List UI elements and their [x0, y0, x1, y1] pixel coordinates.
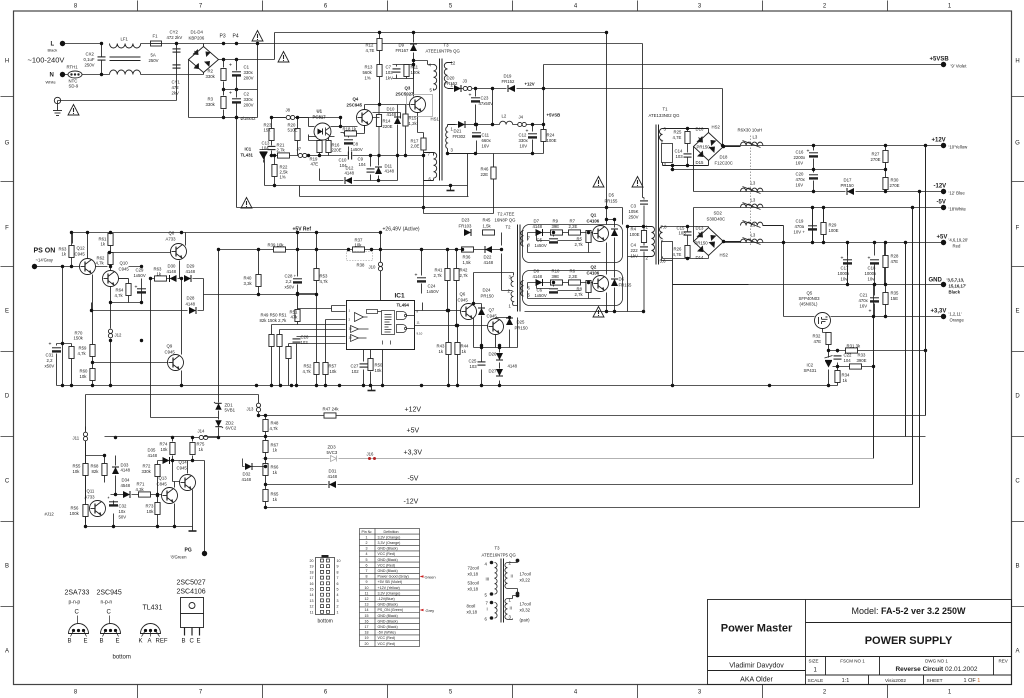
svg-text:2SA733: 2SA733: [65, 590, 90, 597]
svg-text:2,7k: 2,7k: [277, 148, 286, 153]
svg-text:2SC5027: 2SC5027: [396, 92, 415, 97]
svg-text:R13: R13: [365, 65, 373, 70]
svg-text:FR155: FR155: [619, 283, 633, 288]
svg-text:10V +: 10V +: [794, 230, 806, 235]
svg-text:104: 104: [359, 162, 367, 167]
svg-text:R42: R42: [460, 268, 468, 273]
svg-text:HS2: HS2: [720, 253, 729, 258]
svg-text:150k: 150k: [74, 336, 84, 341]
svg-text:GND (Black): GND (Black): [378, 603, 398, 607]
svg-text:VCC (Red): VCC (Red): [378, 636, 396, 640]
svg-text:15: 15: [365, 614, 369, 618]
svg-text:4,7k: 4,7k: [78, 351, 87, 356]
svg-text:103: 103: [676, 154, 684, 159]
svg-text:5,6: 5,6: [660, 259, 667, 264]
svg-text:S30D40C: S30D40C: [707, 217, 726, 222]
svg-text:Q9: Q9: [167, 344, 173, 349]
svg-text:5VB1: 5VB1: [225, 408, 236, 413]
svg-text:20: 20: [310, 559, 314, 563]
svg-text:2kV: 2kV: [172, 91, 180, 96]
svg-text:1x50V: 1x50V: [134, 273, 146, 278]
warning triangle near ground: [68, 105, 79, 116]
svg-text:2SC945: 2SC945: [97, 590, 122, 597]
transistor Q6 C945: [458, 292, 477, 320]
svg-text:D25: D25: [517, 320, 525, 325]
svg-text:10v: 10v: [868, 277, 876, 282]
diode D11 4148: [375, 164, 395, 175]
T3 detail primary 72coil: [468, 561, 498, 578]
L3 core dotted: [750, 136, 752, 247]
svg-text:100k: 100k: [411, 70, 421, 75]
junction dots PG: [103, 454, 106, 457]
inductor L3 +3.3V winding: [741, 221, 784, 228]
svg-text:'10'Yellow: '10'Yellow: [949, 145, 969, 150]
winding T2 sec upper: [521, 231, 531, 248]
svg-text:100E: 100E: [547, 138, 557, 143]
svg-text:R5: R5: [577, 237, 583, 242]
wire CY ground: [58, 44, 177, 107]
svg-text:Green: Green: [425, 574, 436, 579]
svg-text:2,2: 2,2: [286, 279, 293, 284]
wire T1 return line: [671, 164, 886, 192]
shunt regulator IC2 SP431: [804, 356, 833, 374]
svg-text:GND (Black): GND (Black): [378, 558, 398, 562]
ground PG: [189, 527, 197, 532]
svg-text:C23: C23: [481, 96, 489, 101]
svg-text:4,7E: 4,7E: [673, 135, 682, 140]
svg-text:6: 6: [366, 563, 368, 567]
resistor R71 4,3k: [136, 482, 151, 498]
terminal +5V: [937, 235, 969, 249]
diode D31 4148: [328, 469, 338, 489]
svg-text:R2: R2: [208, 69, 214, 74]
svg-text:12: 12: [310, 605, 314, 609]
svg-text:9: 9: [366, 580, 368, 584]
svg-text:J4: J4: [519, 115, 524, 120]
svg-text:R25: R25: [674, 130, 682, 135]
svg-text:x0,18: x0,18: [468, 572, 479, 577]
svg-text:D31: D31: [329, 469, 337, 474]
wire +5VRef rail: [73, 232, 382, 234]
svg-text:J10: J10: [369, 265, 377, 270]
svg-text:+: +: [49, 342, 52, 348]
node P3: [220, 34, 226, 46]
svg-text:4,7k: 4,7k: [96, 261, 105, 266]
svg-text:12: 12: [451, 61, 456, 66]
capacitor C26 103: [293, 335, 309, 346]
resistor R63 1k input: [59, 233, 75, 267]
svg-text:J11: J11: [73, 436, 80, 441]
svg-text:10k: 10k: [161, 447, 169, 452]
zener ZD2 6VC2: [215, 420, 237, 430]
svg-text:Q11: Q11: [87, 489, 95, 494]
svg-text:C945: C945: [177, 466, 188, 471]
svg-text:4148: 4148: [533, 274, 543, 279]
svg-text:III: III: [486, 577, 490, 582]
diode D17 PR150: [841, 178, 855, 196]
resistor R26 4,7E: [663, 246, 709, 259]
svg-text:1x50V: 1x50V: [535, 243, 547, 248]
svg-text:R75: R75: [197, 442, 205, 447]
svg-text:PR150: PR150: [841, 183, 855, 188]
wire R39/R37 line: [219, 250, 502, 403]
svg-text:R6X30 10uH: R6X30 10uH: [738, 128, 763, 133]
svg-text:C945: C945: [165, 350, 176, 355]
svg-text:ATEE16N7Pb QG: ATEE16N7Pb QG: [426, 49, 461, 54]
svg-text:(pair): (pair): [520, 618, 531, 623]
wire bridge minus: [189, 60, 258, 118]
svg-text:F: F: [1016, 226, 1020, 232]
svg-text:F12C20C: F12C20C: [715, 161, 733, 166]
diode D23 FR103: [459, 218, 473, 237]
svg-text:3,3V (Orange): 3,3V (Orange): [378, 535, 401, 539]
resistor R73 10k: [146, 503, 161, 515]
wire ZD chain: [151, 403, 219, 437]
svg-text:472: 472: [172, 85, 180, 90]
resistor R53 4,7k: [314, 269, 329, 285]
svg-text:+12V (Yellow): +12V (Yellow): [378, 586, 400, 590]
capacitor C28 2,2 x50V: [285, 274, 303, 290]
T3 detail secondary 17coil lower: [505, 594, 519, 620]
svg-text:4,3k: 4,3k: [136, 487, 145, 492]
svg-text:G: G: [5, 141, 10, 147]
svg-text:C: C: [107, 610, 112, 616]
svg-text:REV: REV: [999, 659, 1008, 664]
svg-text:SD2: SD2: [714, 211, 723, 216]
svg-text:82k: 82k: [92, 469, 100, 474]
svg-text:GND (Black): GND (Black): [378, 619, 398, 623]
svg-text:R10: R10: [552, 269, 560, 274]
capacitor C32 10x 50V: [108, 497, 127, 520]
svg-text:D9: D9: [399, 43, 405, 48]
svg-text:R29: R29: [829, 223, 837, 228]
svg-text:Q5: Q5: [807, 291, 813, 296]
wire Q9: [93, 279, 182, 418]
svg-text:C20: C20: [796, 172, 804, 177]
wire Q3 collector to T3: [414, 61, 434, 97]
svg-text:C5: C5: [537, 238, 543, 243]
svg-text:'18'White: '18'White: [949, 207, 967, 212]
svg-text:C17: C17: [841, 266, 849, 271]
svg-text:C11: C11: [482, 133, 490, 138]
resistor R59 4,7k: [78, 345, 96, 357]
svg-text:18: 18: [310, 570, 314, 574]
svg-text:D18: D18: [720, 155, 728, 160]
svg-text:6: 6: [337, 582, 339, 586]
svg-text:L3: L3: [751, 181, 756, 186]
resistor R46 22E: [481, 167, 497, 180]
svg-text:D: D: [5, 394, 10, 400]
svg-text:TL431: TL431: [241, 153, 254, 158]
diode D29 4148: [184, 264, 196, 283]
resistor R29 100E: [821, 208, 839, 243]
svg-text:FR103: FR103: [459, 224, 473, 229]
capacitor CX2: [84, 44, 106, 75]
svg-text:R52: R52: [304, 364, 312, 369]
svg-text:#J12: #J12: [45, 512, 55, 517]
terminal +3.3V: [931, 309, 965, 323]
svg-text:C16: C16: [796, 150, 804, 155]
wire +310V from bridge: [219, 33, 607, 60]
svg-text:470a: 470a: [795, 224, 805, 229]
svg-text:+5VSB: +5VSB: [547, 113, 561, 118]
svg-text:CY1: CY1: [172, 80, 181, 85]
label PG output: [171, 548, 208, 560]
svg-text:17coil: 17coil: [520, 572, 531, 577]
resistor R43 1k: [437, 343, 452, 355]
resistor R48 4,7k: [263, 420, 279, 432]
inductor L3 +12V: [738, 128, 763, 148]
svg-text:R8: R8: [577, 287, 583, 292]
svg-text:D10: D10: [387, 107, 395, 112]
pinout 2SC5027 2SC4106: [177, 580, 206, 645]
svg-text:R7: R7: [570, 219, 576, 224]
svg-text:+: +: [526, 129, 529, 135]
svg-text:+3,3V: +3,3V: [404, 450, 423, 457]
svg-text:10k: 10k: [73, 469, 81, 474]
wire C17 C18 C21 R35: [848, 243, 886, 317]
svg-text:1kV: 1kV: [386, 76, 394, 81]
resistor R55 10k: [73, 464, 89, 476]
svg-text:R50: R50: [375, 363, 383, 368]
svg-text:C10: C10: [339, 158, 347, 163]
svg-text:Visio2002: Visio2002: [885, 678, 906, 684]
svg-text:'12' Blue: '12' Blue: [949, 191, 966, 196]
svg-text:x0,18: x0,18: [468, 587, 479, 592]
svg-text:B: B: [1015, 564, 1019, 570]
svg-text:+5V: +5V: [407, 428, 420, 435]
svg-text:C1: C1: [244, 65, 250, 70]
svg-text:A: A: [1015, 649, 1019, 655]
svg-text:K: K: [139, 639, 143, 645]
svg-text:4548: 4548: [121, 483, 131, 488]
resistor R41 2,7k: [434, 268, 451, 281]
capacitor C31 2,2 x50V: [45, 342, 62, 369]
svg-text:F: F: [5, 226, 9, 232]
snubber C15 103: [663, 226, 709, 246]
svg-text:250V: 250V: [629, 215, 639, 220]
resistor R18 1k: [343, 127, 357, 137]
svg-text:15E: 15E: [891, 296, 899, 301]
svg-text:2,0E: 2,0E: [411, 144, 420, 149]
svg-text:4148: 4148: [167, 269, 177, 274]
svg-text:50V: 50V: [119, 515, 127, 520]
svg-text:C9: C9: [358, 157, 364, 162]
svg-text:2,7k: 2,7k: [575, 242, 584, 247]
svg-text:R27: R27: [872, 152, 880, 157]
wire +5VSB vertical: [544, 65, 944, 154]
transistor Q1 C4106: [587, 213, 609, 242]
transformer T3 aux winding: [424, 152, 437, 182]
svg-text:4148: 4148: [148, 453, 158, 458]
node J7: [297, 147, 307, 158]
svg-text:103: 103: [386, 70, 394, 75]
svg-text:-12V: -12V: [404, 499, 419, 506]
svg-text:11: 11: [417, 321, 420, 325]
svg-text:2,7k: 2,7k: [575, 292, 584, 297]
wire AC line to C3: [643, 44, 645, 198]
svg-text:FR152: FR152: [445, 81, 459, 86]
svg-text:FSCM NO 1: FSCM NO 1: [840, 659, 865, 664]
diode D5 FR155: [605, 193, 619, 237]
svg-text:'8'Green: '8'Green: [171, 555, 188, 560]
svg-text:x0,32: x0,32: [520, 608, 531, 613]
resistor R40 3,3k: [244, 275, 262, 287]
svg-text:2200x: 2200x: [794, 155, 807, 160]
transistor Q13 C945: [157, 476, 178, 504]
svg-text:R15: R15: [409, 116, 417, 121]
svg-text:510E: 510E: [288, 128, 298, 133]
svg-text:C24: C24: [428, 284, 436, 289]
svg-text:2: 2: [337, 605, 339, 609]
bridge rectifier D1-D4 KBP206: [189, 44, 219, 75]
svg-text:N: N: [50, 73, 54, 79]
svg-text:1,5k: 1,5k: [483, 224, 492, 229]
svg-text:Q6: Q6: [460, 292, 466, 297]
resistor R20 510E: [288, 123, 301, 141]
svg-text:16V: 16V: [796, 183, 804, 188]
svg-text:+3,3V: +3,3V: [931, 309, 947, 315]
svg-text:R64: R64: [116, 288, 124, 293]
svg-text:103: 103: [470, 364, 478, 369]
svg-text:4148: 4148: [508, 364, 518, 369]
transformer T3 secondary winding lower: [446, 125, 476, 154]
wire AC line top: [63, 43, 643, 45]
svg-text:ZD3: ZD3: [328, 445, 337, 450]
junction dots standby: [378, 31, 381, 34]
svg-text:GND: GND: [929, 278, 943, 284]
svg-text:R28: R28: [891, 254, 899, 259]
svg-text:4148: 4148: [533, 224, 543, 229]
svg-text:R26: R26: [674, 247, 682, 252]
frame column ticks bottom: [138, 685, 888, 698]
svg-text:D1-D4: D1-D4: [191, 30, 204, 35]
svg-text:100E: 100E: [630, 232, 640, 237]
svg-text:Q7: Q7: [489, 308, 495, 313]
svg-text:4,7E: 4,7E: [673, 252, 682, 257]
svg-text:D7: D7: [534, 219, 540, 224]
svg-text:Q4: Q4: [353, 97, 359, 102]
terminal +12V: [932, 138, 969, 150]
capacitor C16 2200x 16V: [794, 149, 819, 166]
capacitor C14 103: [675, 149, 692, 166]
capacitor C3 105K 250V: [629, 201, 649, 220]
svg-text:16N8P QG: 16N8P QG: [495, 218, 517, 223]
svg-text:+12V: +12V: [525, 82, 535, 87]
svg-text:'1,2,11': '1,2,11': [949, 312, 962, 317]
svg-text:C32: C32: [119, 504, 127, 509]
wire PS-ON upper rail continuation: [72, 233, 74, 244]
svg-text:F1: F1: [153, 34, 159, 39]
svg-text:E: E: [84, 639, 88, 645]
svg-text:D22: D22: [484, 255, 492, 260]
svg-text:VCC (Red): VCC (Red): [378, 552, 396, 556]
svg-text:D29: D29: [187, 264, 195, 269]
svg-text:E: E: [5, 309, 9, 315]
svg-text:C: C: [75, 610, 80, 616]
capacitor C4 222 1kV: [631, 243, 649, 259]
svg-text:16V: 16V: [482, 144, 490, 149]
terminal GND: [929, 278, 967, 295]
capacitor C29 1x50V: [134, 268, 147, 294]
svg-text:R60: R60: [80, 369, 88, 374]
svg-text:+26,49V (Active): +26,49V (Active): [383, 227, 420, 233]
svg-text:R56: R56: [71, 506, 79, 511]
resistor R25 4,7E: [673, 129, 691, 153]
svg-text:KBP206: KBP206: [189, 36, 205, 41]
svg-text:HS2: HS2: [712, 125, 721, 130]
resistor R31 3k: [846, 344, 861, 354]
capacitor C11 660x 16V: [472, 133, 492, 149]
svg-text:1: 1: [366, 535, 368, 539]
svg-text:bottom: bottom: [113, 655, 131, 661]
svg-text:H: H: [1015, 59, 1019, 65]
capacitor C23 47x50V: [469, 93, 494, 107]
svg-text:FR302: FR302: [453, 134, 467, 139]
warning triangle top2: [278, 52, 289, 63]
resistor R23 15k: [264, 123, 275, 141]
svg-text:2,2E: 2,2E: [569, 274, 578, 279]
diode D9 FR167: [396, 43, 418, 54]
svg-text:20: 20: [365, 642, 369, 646]
svg-text:D24: D24: [483, 288, 491, 293]
svg-text:E: E: [197, 639, 201, 645]
svg-text:R44: R44: [461, 344, 469, 349]
svg-text:'4,6,19,20': '4,6,19,20': [949, 238, 969, 243]
svg-text:J13: J13: [247, 407, 255, 412]
svg-text:~14'Gray: ~14'Gray: [36, 258, 54, 263]
svg-text:C945: C945: [75, 252, 86, 257]
svg-text:Definition: Definition: [384, 530, 399, 534]
diode D12 4148: [345, 166, 355, 185]
transformer T1 core: [656, 125, 659, 265]
resistor R61 1k: [99, 234, 114, 247]
zener ZD1 5VB1: [214, 402, 236, 413]
wire C1 rails: [224, 60, 237, 118]
frame row ticks left: [1, 97, 14, 607]
svg-text:FR167: FR167: [396, 48, 410, 53]
svg-text:10: 10: [337, 559, 341, 563]
svg-text:'9' Violet: '9' Violet: [951, 64, 968, 69]
svg-text:+: +: [415, 273, 418, 279]
node J3: [463, 79, 472, 91]
diode D32 4148: [242, 459, 268, 483]
svg-text:4,7k: 4,7k: [303, 369, 312, 374]
resistor R72 330k: [142, 464, 161, 477]
svg-text:1x50V: 1x50V: [535, 293, 547, 298]
transformer T3 primary winding: [429, 63, 437, 93]
svg-text:+: +: [869, 309, 872, 315]
svg-text:R57: R57: [329, 364, 337, 369]
svg-text:D23: D23: [462, 218, 470, 223]
diode D25 PR150: [506, 318, 528, 331]
svg-text:D30: D30: [168, 264, 176, 269]
svg-text:T1: T1: [663, 107, 669, 112]
svg-text:C31: C31: [46, 353, 54, 358]
capacitor C22 104: [834, 353, 852, 364]
resistor R62 4,7k: [96, 253, 114, 266]
svg-text:4148: 4148: [186, 302, 196, 307]
svg-text:3: 3: [366, 547, 368, 551]
svg-text:GND (Black): GND (Black): [378, 625, 398, 629]
wire C23 branch: [475, 89, 477, 125]
junction dots ground bus: [255, 384, 258, 387]
svg-text:CX2: CX2: [86, 52, 95, 57]
svg-text:4: 4: [337, 593, 339, 597]
svg-text:D28: D28: [187, 296, 195, 301]
thermistor RTH1: [67, 65, 83, 89]
svg-text:10: 10: [365, 586, 369, 590]
